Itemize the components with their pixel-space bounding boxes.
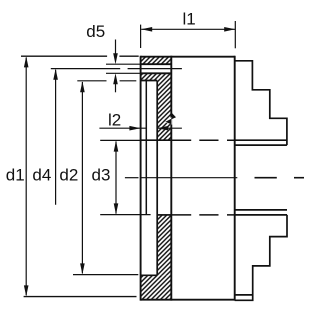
l1 right arrowhead — [224, 27, 235, 32]
d5 lower arrow shaft — [115, 84, 117, 92]
d2 top arrowhead — [80, 81, 85, 92]
d3 top arrowhead — [114, 141, 119, 152]
l1 dimension line — [141, 28, 235, 30]
d4 extension / bolt circle line — [51, 68, 182, 70]
svg-text:d4: d4 — [32, 165, 51, 184]
d3 bottom extension line — [100, 214, 150, 216]
bore bottom edge dashes in body — [171, 214, 234, 216]
flange left face — [140, 56, 142, 301]
rim inner edge top (pocket floor) — [141, 80, 158, 82]
hatch flange web lower D — [157, 215, 171, 275]
part outline: top edge — [141, 56, 235, 58]
groove bottom line across rim — [141, 72, 172, 74]
d5 lower arrowhead (up) — [113, 73, 118, 84]
d2 bottom arrowhead — [80, 263, 85, 274]
flange web left face — [156, 81, 158, 276]
l1 left extension — [140, 25, 142, 48]
jaw bottom block — [235, 215, 287, 300]
d1 bottom extension line — [24, 296, 137, 298]
svg-text:d2: d2 — [59, 165, 78, 184]
groove top line across rim — [141, 63, 172, 65]
l2 right arrowhead (points left) — [157, 126, 168, 131]
d1 top arrowhead — [24, 56, 29, 67]
svg-text:d1: d1 — [6, 165, 25, 184]
d2 top extension line — [77, 80, 136, 82]
l2 dimension tail right — [157, 127, 182, 129]
body front face — [234, 56, 236, 301]
jaw top block — [235, 61, 287, 145]
bore top edge dashes in body — [171, 139, 234, 141]
d5 extension top — [106, 63, 141, 65]
l2 dimension line left part — [99, 127, 146, 129]
l2 left arrowhead (points right) — [129, 126, 140, 131]
d2 dimension line — [81, 82, 83, 273]
d5 upper arrow shaft — [115, 40, 117, 54]
pocket wall — [145, 80, 147, 215]
break-mark lower triangle — [165, 119, 171, 125]
jaw top pair lines — [235, 139, 287, 141]
part outline: bottom edge — [141, 299, 235, 301]
jaw bottom edge — [235, 294, 253, 296]
l1 left arrowhead — [141, 27, 152, 32]
flange right face / body back face — [170, 56, 172, 301]
jaw bottom pair lines — [235, 209, 287, 211]
centerline — [125, 177, 139, 179]
d4 dimension line (single arrow) — [55, 70, 57, 205]
bore top edge in flange — [141, 139, 172, 141]
hatch flange rim band B — [141, 73, 172, 80]
svg-text:d5: d5 — [86, 22, 105, 41]
hatch flange web upper C — [157, 81, 171, 141]
d3 dimension line — [115, 142, 117, 214]
d5 upper arrowhead (down) — [113, 53, 118, 64]
d4 arrowhead — [53, 69, 58, 80]
svg-text:l1: l1 — [183, 9, 196, 28]
break-mark upper triangle — [171, 112, 176, 119]
d2 bottom extension line — [73, 274, 138, 276]
d1 dimension line — [25, 58, 27, 296]
l1 right extension — [234, 21, 236, 48]
rim inner edge bottom — [141, 274, 158, 276]
svg-text:d3: d3 — [92, 165, 111, 184]
d3 bottom arrowhead — [114, 203, 119, 214]
svg-text:l2: l2 — [108, 111, 121, 130]
hatch flange rim bottom E — [141, 275, 172, 299]
d1 bottom arrowhead — [24, 285, 29, 296]
d1 top extension line — [21, 55, 139, 57]
bore bottom edge in flange — [157, 214, 171, 216]
d5 extension bottom — [106, 72, 141, 74]
break-mark zigzag on flange right face: white wedge — [164, 116, 172, 124]
d3 top extension line — [100, 139, 140, 141]
hatch flange rim top band A — [141, 57, 172, 64]
